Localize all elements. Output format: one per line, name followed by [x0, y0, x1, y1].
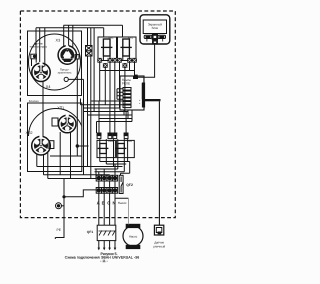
svg-text:РЕЛЕ: РЕЛЕ	[122, 81, 130, 85]
wire X4 down to XP2	[42, 82, 44, 138]
wire right drop with junction	[76, 59, 78, 156]
relay board bottom drops	[97, 110, 133, 133]
ribbon bar	[142, 83, 145, 99]
thick lead to sensor	[143, 99, 161, 101]
connector X3	[58, 45, 76, 65]
grid drops to coil terminals	[99, 62, 126, 133]
flange arc	[29, 109, 84, 137]
pump M	[123, 224, 143, 248]
connector X4	[32, 62, 50, 82]
wire XP2 down	[37, 153, 48, 179]
terminal cross row under contactors	[98, 58, 137, 67]
terminal row links	[99, 181, 115, 188]
wire X4 feeds	[36, 28, 45, 67]
staircase to QF2	[121, 162, 130, 176]
junction dot PE	[62, 195, 65, 198]
drops to strip row 1	[99, 164, 115, 175]
side terminal block	[86, 46, 93, 57]
display unit cable	[138, 44, 155, 77]
wire XP1 down	[60, 132, 70, 179]
pad on X3	[75, 55, 79, 59]
long drop wires right of blocks	[81, 28, 95, 175]
contactor lower terminals down	[100, 62, 135, 111]
wires QF1 out with arrows	[99, 241, 115, 248]
connector XP2	[32, 135, 51, 155]
connector XP1	[58, 114, 76, 133]
cable pad	[134, 75, 137, 79]
pad on XP2	[49, 141, 54, 149]
caption	[65, 252, 140, 263]
QF2 terminal strip row 1	[96, 175, 117, 181]
pad on XP1	[52, 118, 58, 126]
junction dot	[76, 144, 79, 147]
svg-text:РЕ: РЕ	[57, 228, 62, 232]
display unit	[140, 15, 170, 44]
breaker QF1	[87, 225, 116, 240]
wire pad to X4	[32, 59, 37, 66]
side terminal feeds	[88, 28, 91, 46]
svg-text:Насос: Насос	[129, 234, 138, 238]
svg-text:Клапан: Клапан	[29, 99, 39, 103]
wire earth stub	[62, 205, 65, 207]
wire X3 pins up	[64, 25, 73, 47]
svg-text:QF2: QF2	[126, 183, 133, 187]
svg-text:хранитель: хранитель	[58, 71, 72, 75]
wire contactor feeds down	[104, 25, 123, 37]
coil block bottom fan	[100, 160, 128, 172]
top bus wire B	[36, 27, 104, 29]
svg-text:- 11 -: - 11 -	[100, 260, 107, 264]
fan long bus to valve block	[37, 167, 123, 179]
svg-text:ХП2: ХП2	[26, 131, 33, 135]
svg-text:блок: блок	[152, 26, 159, 30]
svg-text:ХЗ: ХЗ	[56, 39, 61, 43]
svg-text:QF1: QF1	[87, 230, 94, 234]
svg-text:о: о	[139, 102, 141, 105]
svg-text:Рисунок 5.: Рисунок 5.	[100, 252, 117, 256]
flange circle	[29, 34, 81, 90]
earth clamp	[56, 203, 62, 209]
svg-text:о: о	[139, 99, 141, 102]
contactor KM1 coil block	[97, 139, 115, 160]
QF2 terminal strip row 2	[96, 188, 117, 194]
relay board A1	[120, 76, 145, 110]
relay board left stubs	[117, 89, 123, 100]
sensor pad square	[31, 54, 37, 59]
fuse circle	[64, 77, 68, 81]
wire PE drop	[55, 179, 64, 240]
contactor KM2 upper contacts	[118, 37, 137, 61]
terminal crosses above coil blocks	[97, 133, 128, 139]
contactor KM2 coil block	[116, 139, 135, 160]
fuse wire	[68, 79, 83, 174]
middle wire grid	[81, 101, 133, 119]
svg-text:Х4: Х4	[46, 85, 51, 89]
upper flange panel block	[28, 31, 82, 96]
pump feed wire	[115, 193, 129, 198]
contactor KM1 upper contacts	[98, 37, 117, 61]
wire to outdoor sensor	[158, 101, 160, 225]
wires A B C N down to QF1	[99, 193, 115, 225]
top bus wire A	[64, 24, 123, 26]
lower flange panel block	[28, 103, 82, 172]
svg-text:уличный: уличный	[153, 244, 165, 248]
ribbon stub	[143, 77, 145, 83]
svg-text:Схема подключения ЭВАН UNIVERS: Схема подключения ЭВАН UNIVERSAL -36	[65, 256, 140, 260]
svg-text:ХП1: ХП1	[57, 106, 64, 110]
outdoor sensor	[153, 225, 165, 248]
svg-text:Насос: Насос	[118, 201, 127, 205]
lower terminal bus	[100, 70, 135, 72]
breaker QF2	[119, 175, 133, 193]
wire junction to right	[50, 146, 89, 156]
wire PE to terminals	[64, 190, 96, 197]
boiler enclosure dashed border	[20, 11, 175, 218]
